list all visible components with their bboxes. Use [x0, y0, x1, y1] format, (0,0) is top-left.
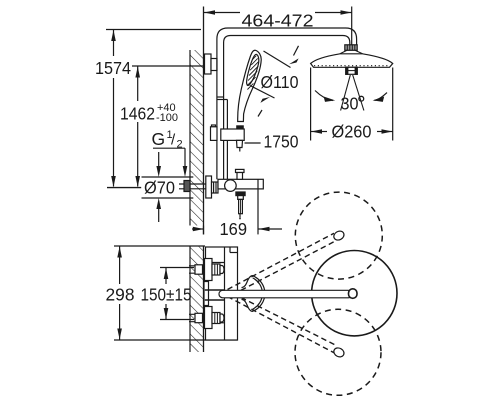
svg-text:169: 169 — [220, 219, 248, 239]
supply pipe into wall (front view) — [179, 181, 206, 192]
lower dashed swivel arm — [228, 297, 337, 353]
dimension 298 — [106, 246, 238, 340]
svg-text:1462: 1462 — [120, 104, 155, 124]
solid circle (shower head top view) — [312, 251, 397, 336]
shower column pipe with top bend — [217, 28, 357, 179]
spray angle lines — [341, 75, 364, 111]
valve bottom hose outlet — [236, 192, 245, 219]
svg-text:1750: 1750 — [264, 132, 299, 152]
label G 1/2 with leader — [152, 129, 188, 177]
svg-text:G: G — [152, 129, 166, 149]
dimension 1462 +40/-100 — [120, 66, 217, 187]
svg-text:-100: -100 — [156, 112, 178, 124]
dimension Ø70 — [142, 152, 194, 222]
dimension Ø260 — [311, 68, 393, 142]
svg-text:Ø70: Ø70 — [144, 178, 175, 198]
svg-text:1574: 1574 — [95, 58, 131, 78]
svg-text:Ø260: Ø260 — [332, 122, 372, 142]
dimension 464-472 — [204, 7, 352, 45]
hand shower head and handle — [236, 50, 261, 130]
thermostat valve body (front view) — [206, 169, 263, 198]
swivel arm trumpet bell (top view) — [242, 276, 265, 312]
valve body (top view) — [206, 247, 238, 340]
wall (front view) — [190, 7, 204, 235]
bottom supply connection (top view) — [189, 307, 224, 329]
label 1750 with leader — [245, 132, 299, 152]
upper dashed swivel arm — [228, 233, 337, 290]
overhead shower head — [311, 54, 393, 75]
arm mount bars (top view) — [205, 290, 225, 300]
shared bottom extension line for 1574/1462 — [107, 187, 141, 189]
svg-text:150±15: 150±15 — [141, 285, 192, 305]
dimension 1574 — [95, 30, 201, 188]
overhead shower connector nut — [340, 45, 363, 54]
lower dashed circle (swivel position) — [295, 309, 381, 395]
wall (top view) — [190, 246, 204, 352]
dimension 150±15 — [141, 268, 195, 320]
solid swivel arm (top view) — [219, 289, 357, 299]
slider holder on rail — [211, 125, 245, 152]
svg-text:Ø110: Ø110 — [261, 72, 299, 92]
dimension 169 — [192, 189, 282, 239]
label 30° with curved arrows — [315, 91, 387, 114]
upper arm tip cap — [332, 229, 345, 241]
svg-text:298: 298 — [106, 285, 135, 305]
wall bracket top — [205, 54, 218, 74]
lower arm tip cap — [332, 346, 345, 358]
middle escutcheon plate (top view) — [204, 282, 209, 306]
svg-text:30: 30 — [341, 94, 359, 114]
top supply connection (top view) — [189, 259, 224, 281]
upper dashed circle (swivel position) — [295, 192, 382, 279]
dimension Ø110 — [250, 46, 299, 117]
